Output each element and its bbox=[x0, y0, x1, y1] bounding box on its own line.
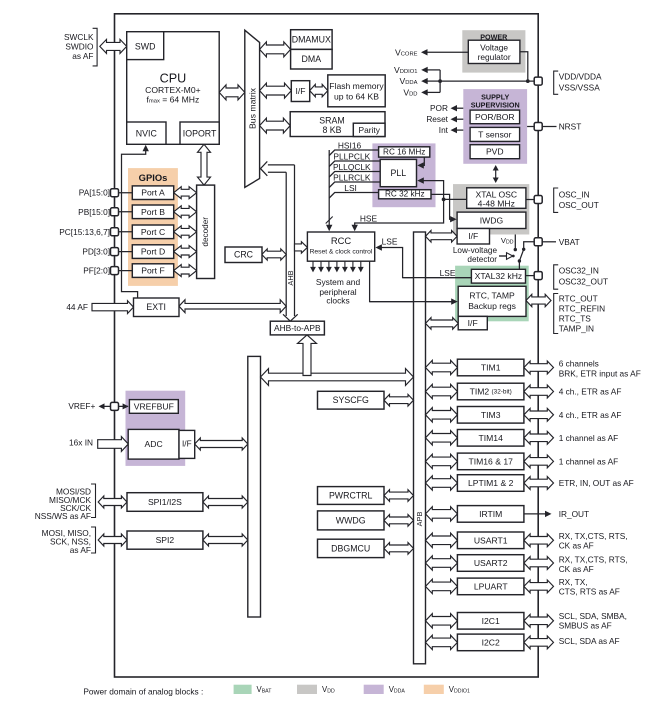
block PLL bbox=[380, 159, 416, 186]
block DMA bbox=[291, 49, 333, 69]
block Port D bbox=[132, 245, 173, 259]
block flash memory bbox=[328, 75, 385, 107]
pin square PD bbox=[111, 248, 119, 256]
arrow TIM16_17 AF pins bbox=[524, 455, 554, 468]
svg-text:6 channels: 6 channels bbox=[559, 359, 599, 369]
arrow 16x IN to ADC bbox=[98, 437, 129, 452]
svg-text:I2C2: I2C2 bbox=[482, 637, 500, 647]
svg-text:VREF+: VREF+ bbox=[68, 401, 95, 411]
svg-text:DMAMUX: DMAMUX bbox=[292, 35, 331, 45]
arrow APB to I2C1 bbox=[426, 614, 458, 628]
svg-text:PLLRCLK: PLLRCLK bbox=[333, 172, 371, 182]
power block fill (VDD gray) bbox=[462, 30, 525, 72]
wire XTAL OSC output HSE bbox=[444, 198, 467, 200]
svg-text:VREFBUF: VREFBUF bbox=[134, 401, 174, 411]
arrow TIM1 AF pins bbox=[524, 361, 554, 374]
arrow SPI1 to bus bbox=[203, 496, 248, 508]
wire VDD VDDA supply rail bbox=[440, 80, 534, 82]
arrow port B to decoder bbox=[174, 206, 197, 218]
block Port B bbox=[132, 205, 173, 219]
arrow AHB-to-APB to APB arrow bbox=[298, 335, 317, 376]
svg-text:Reset & clock control: Reset & clock control bbox=[310, 249, 373, 256]
block RC 32 kHz bbox=[379, 190, 431, 199]
wire PLLQCLK bbox=[329, 172, 380, 178]
block SYSCFG bbox=[318, 391, 385, 409]
arrow port A to decoder bbox=[174, 187, 197, 199]
arrow RTC IF to APB bbox=[426, 318, 459, 330]
svg-text:SCL, SDA, SMBA,: SCL, SDA, SMBA, bbox=[559, 611, 627, 621]
block Port C bbox=[132, 225, 173, 239]
arrow port C to decoder bbox=[174, 226, 197, 238]
svg-text:SWCLK: SWCLK bbox=[64, 32, 94, 42]
pin square VBAT bbox=[534, 238, 542, 246]
svg-text:RTC_REFIN: RTC_REFIN bbox=[559, 304, 605, 314]
svg-text:PA[15:0]: PA[15:0] bbox=[79, 188, 110, 198]
svg-text:PC[15:13,6,7]: PC[15:13,6,7] bbox=[59, 227, 110, 237]
svg-text:SWDIO: SWDIO bbox=[65, 42, 94, 52]
slash multi-signal mark bbox=[326, 217, 333, 224]
arrow bus matrix to SRAM bbox=[260, 118, 291, 133]
block RTC TAMP bbox=[458, 286, 526, 316]
wire port F pin bbox=[115, 270, 133, 272]
svg-text:PLL: PLL bbox=[390, 168, 406, 178]
wire VDD tap bbox=[425, 91, 441, 93]
arrow LPUART AF pins bbox=[524, 580, 554, 593]
svg-text:SMBUS as AF: SMBUS as AF bbox=[559, 620, 612, 630]
wire IRTIM IR_OUT bbox=[525, 513, 549, 515]
svg-text:SUPERVISION: SUPERVISION bbox=[471, 100, 520, 109]
svg-text:IWDG: IWDG bbox=[480, 215, 504, 225]
svg-text:RTC, TAMP: RTC, TAMP bbox=[469, 291, 515, 301]
AHB bus open arrow into bus matrix bbox=[268, 171, 286, 173]
arrow APB to TIM1 bbox=[426, 360, 458, 374]
svg-text:SYSCFG: SYSCFG bbox=[333, 395, 369, 405]
svg-text:4 ch., ETR as AF: 4 ch., ETR as AF bbox=[559, 410, 622, 420]
svg-text:up to 64 KB: up to 64 KB bbox=[334, 92, 379, 102]
svg-text:LPTIM1 & 2: LPTIM1 & 2 bbox=[468, 478, 514, 488]
wire port C pin bbox=[115, 231, 133, 233]
arrow SYSCFG to APB bbox=[384, 394, 414, 406]
wire HSI16 clock bbox=[329, 150, 378, 156]
svg-text:ETR, IN, OUT as AF: ETR, IN, OUT as AF bbox=[559, 478, 634, 488]
block LPTIM1 and 2 bbox=[457, 475, 524, 492]
svg-text:HSE: HSE bbox=[360, 214, 378, 224]
arrow flash IF to flash memory bbox=[310, 84, 328, 96]
block TIM3 bbox=[457, 407, 524, 424]
svg-text:Bus matrix: Bus matrix bbox=[248, 87, 258, 129]
svg-text:Backup regs: Backup regs bbox=[468, 301, 516, 311]
wire VDDIO1 tap bbox=[425, 69, 441, 71]
svg-text:VBAT: VBAT bbox=[257, 685, 273, 695]
block IWDG IF bbox=[457, 229, 489, 245]
arrow port D to decoder bbox=[174, 246, 197, 258]
wire Int output bbox=[454, 129, 464, 131]
arrow PVD to VDD monitor bbox=[495, 167, 497, 181]
svg-text:PB[15:0]: PB[15:0] bbox=[78, 207, 110, 217]
svg-text:as AF: as AF bbox=[70, 545, 91, 555]
svg-text:NRST: NRST bbox=[559, 122, 582, 132]
svg-text:16x IN: 16x IN bbox=[69, 438, 93, 448]
legend VDD swatch bbox=[297, 685, 317, 694]
block I2C2 bbox=[457, 634, 524, 651]
svg-text:NSS/WS as AF: NSS/WS as AF bbox=[35, 511, 91, 521]
arrow LPTIM1_2 AF pins bbox=[524, 477, 554, 490]
svg-text:TIM1: TIM1 bbox=[481, 363, 501, 373]
arrow EXTI to AHB bbox=[179, 300, 286, 313]
svg-text:RCC: RCC bbox=[331, 235, 352, 246]
block IWDG bbox=[457, 212, 526, 228]
arrow WWDG to APB bbox=[384, 515, 414, 527]
wire LSI to IWDG bbox=[431, 194, 454, 219]
legend VDDIO1 swatch bbox=[424, 685, 444, 694]
bus matrix bbox=[245, 30, 260, 187]
block EXTI bbox=[134, 298, 180, 317]
svg-text:System and: System and bbox=[316, 277, 361, 287]
clock block fill (VDDA purple) bbox=[372, 143, 435, 207]
svg-text:VDDA: VDDA bbox=[400, 76, 418, 86]
svg-text:decoder: decoder bbox=[201, 217, 210, 247]
svg-text:XTAL32 kHz: XTAL32 kHz bbox=[475, 271, 523, 281]
block parity bbox=[353, 123, 385, 136]
svg-text:LSE: LSE bbox=[382, 237, 398, 247]
svg-text:SPI2: SPI2 bbox=[156, 535, 175, 545]
arrow AHB to RCC bbox=[295, 242, 308, 253]
svg-text:RC 32 kHz: RC 32 kHz bbox=[385, 190, 425, 199]
svg-text:USART1: USART1 bbox=[474, 535, 508, 545]
wire port B pin bbox=[115, 211, 133, 213]
label OSC pins bbox=[554, 188, 559, 212]
block ADC IF bbox=[179, 430, 195, 458]
svg-text:CRC: CRC bbox=[234, 250, 254, 260]
xtal-iwdg block fill (VDD gray) bbox=[453, 184, 529, 234]
arrow AHB APB main horizontal bbox=[261, 369, 414, 386]
svg-text:Port C: Port C bbox=[141, 227, 165, 237]
pin square NRST bbox=[534, 123, 542, 131]
GPIOs power-domain fill (VDDIO1 orange) bbox=[128, 168, 178, 286]
block WWDG bbox=[318, 511, 385, 530]
block NVIC bbox=[127, 122, 166, 144]
arrow I2C2 AF pins bbox=[524, 636, 554, 649]
svg-text:1 channel as AF: 1 channel as AF bbox=[559, 456, 619, 466]
block VREFBUF bbox=[129, 400, 178, 414]
svg-text:44 AF: 44 AF bbox=[66, 302, 88, 312]
svg-text:ADC: ADC bbox=[145, 439, 163, 449]
wire LSE to RCC bbox=[378, 248, 471, 278]
wire Reset output bbox=[454, 118, 464, 120]
arrow RTC to pins bbox=[526, 294, 551, 306]
arrow APB to TIM16_17 bbox=[426, 454, 458, 468]
wire RTC clock across APB bar bbox=[370, 301, 455, 303]
block POR BOR bbox=[470, 110, 519, 124]
svg-text:CPU: CPU bbox=[160, 72, 187, 86]
svg-text:VDDIO1: VDDIO1 bbox=[449, 685, 470, 695]
svg-text:4-48 MHz: 4-48 MHz bbox=[478, 198, 515, 208]
arrow APB to LPTIM1_2 bbox=[426, 476, 458, 490]
svg-text:EXTI: EXTI bbox=[146, 302, 166, 312]
pin square PA bbox=[111, 189, 119, 197]
pin square PB bbox=[111, 208, 119, 216]
arrow USART1 AF pins bbox=[524, 534, 554, 547]
svg-text:RX, TX,: RX, TX, bbox=[559, 577, 588, 587]
svg-text:Port F: Port F bbox=[141, 266, 164, 276]
wire XTAL OSC to OSC pins bbox=[526, 199, 535, 201]
block RTC IF bbox=[458, 316, 487, 329]
block PVD bbox=[470, 145, 519, 159]
arrow APB to I2C2 bbox=[426, 635, 458, 649]
arrow DBGMCU to APB bbox=[384, 543, 414, 555]
arrow bus matrix to flash IF bbox=[260, 83, 292, 98]
svg-text:VDDIO1: VDDIO1 bbox=[394, 65, 417, 75]
arrow VREF+ in bbox=[101, 405, 128, 407]
arrow USART2 AF pins bbox=[524, 557, 554, 570]
block XTAL32 kHz bbox=[471, 269, 525, 283]
svg-text:VDDA: VDDA bbox=[389, 685, 406, 695]
svg-text:RTC_OUT: RTC_OUT bbox=[559, 294, 598, 304]
wire LSE across APB bar bbox=[403, 277, 472, 279]
svg-text:IOPORT: IOPORT bbox=[183, 128, 217, 138]
svg-text:RX, TX,CTS, RTS,: RX, TX,CTS, RTS, bbox=[559, 531, 628, 541]
block Port A bbox=[132, 186, 173, 200]
pin square OSC bbox=[534, 196, 542, 204]
wire XTAL32 to OSC32 pins bbox=[526, 275, 535, 277]
wire EXTI to NVIC interrupt bbox=[122, 148, 146, 299]
wire port A pin bbox=[115, 192, 133, 194]
svg-text:WWDG: WWDG bbox=[336, 515, 366, 525]
wire VDD to backup switch bbox=[514, 235, 516, 250]
svg-text:TIM14: TIM14 bbox=[479, 433, 504, 443]
arrow SWCLK SWDIO to SWD bbox=[100, 39, 127, 53]
svg-text:VSS/VSSA: VSS/VSSA bbox=[559, 83, 601, 93]
svg-text:SCL, SDA as AF: SCL, SDA as AF bbox=[559, 636, 620, 646]
block SPI2 bbox=[127, 531, 203, 549]
svg-text:IRTIM: IRTIM bbox=[479, 509, 502, 519]
arrow IWDG IF to APB bbox=[426, 231, 458, 243]
wire VDDA tap bbox=[425, 80, 441, 82]
wire PLLPCLK bbox=[329, 161, 380, 167]
svg-text:Int: Int bbox=[439, 125, 449, 135]
svg-text:OSC32_IN: OSC32_IN bbox=[559, 266, 599, 276]
svg-text:1 channel as AF: 1 channel as AF bbox=[559, 433, 619, 443]
svg-text:RTC_TS: RTC_TS bbox=[559, 313, 592, 323]
wire RCC clock to RTC bbox=[370, 261, 455, 301]
wire VBAT to backup switch bbox=[524, 242, 535, 250]
svg-text:I/F: I/F bbox=[468, 318, 478, 328]
arrow APB to LPUART bbox=[426, 579, 458, 593]
svg-text:I/F: I/F bbox=[182, 440, 192, 449]
arrow SPI2 to bus bbox=[203, 534, 248, 546]
arrow SPI1 pins bbox=[98, 496, 127, 508]
APB bus bar bbox=[414, 232, 426, 664]
block PWRCTRL bbox=[318, 487, 385, 505]
svg-text:PWRCTRL: PWRCTRL bbox=[329, 491, 373, 501]
svg-text:SPI1/I2S: SPI1/I2S bbox=[148, 497, 182, 507]
junction VDDA rail bbox=[438, 79, 442, 83]
block decoder bbox=[197, 185, 215, 278]
block TIM14 bbox=[457, 430, 524, 447]
outer device border bbox=[115, 14, 539, 677]
block Port F bbox=[132, 264, 173, 278]
block SPI1 I2S bbox=[127, 493, 203, 512]
block voltage regulator bbox=[468, 40, 520, 63]
svg-text:PD[3:0]: PD[3:0] bbox=[82, 247, 110, 257]
svg-text:Reset: Reset bbox=[426, 114, 448, 124]
svg-text:DBGMCU: DBGMCU bbox=[331, 543, 370, 553]
label OSC32 pins bbox=[554, 265, 559, 289]
svg-text:IR_OUT: IR_OUT bbox=[559, 509, 589, 519]
svg-text:GPIOs: GPIOs bbox=[139, 172, 168, 183]
svg-text:AHB-to-APB: AHB-to-APB bbox=[274, 323, 321, 333]
svg-text:SRAM: SRAM bbox=[319, 116, 344, 126]
svg-text:POR/BOR: POR/BOR bbox=[475, 112, 515, 122]
arrow APB to TIM3 bbox=[426, 408, 458, 422]
block IRTIM bbox=[457, 506, 524, 523]
svg-text:CK as AF: CK as AF bbox=[559, 541, 594, 551]
svg-text:TIM3: TIM3 bbox=[481, 410, 501, 420]
wire PLLRCLK bbox=[329, 182, 380, 188]
left peripheral bus bar bbox=[248, 356, 261, 617]
svg-text:Parity: Parity bbox=[358, 125, 380, 135]
svg-text:Voltage: Voltage bbox=[480, 42, 508, 52]
arrow APB to TIM14 bbox=[426, 431, 458, 445]
legend VBAT swatch bbox=[234, 685, 252, 694]
block TIM1 bbox=[457, 359, 524, 376]
arrow PWRCTRL to APB bbox=[384, 490, 414, 502]
svg-text:LSI: LSI bbox=[344, 183, 357, 193]
arrow IOPORT to decoder bbox=[198, 144, 211, 185]
arrow SPI2 pins bbox=[98, 534, 127, 546]
svg-text:LSE: LSE bbox=[440, 268, 456, 278]
svg-text:APB: APB bbox=[415, 512, 424, 527]
svg-text:LPUART: LPUART bbox=[474, 581, 509, 591]
svg-text:TIM16 & 17: TIM16 & 17 bbox=[468, 456, 513, 466]
svg-text:as AF: as AF bbox=[72, 51, 93, 61]
svg-text:VDD: VDD bbox=[322, 685, 335, 695]
label VDD VDDA pins bbox=[554, 71, 559, 94]
block DMAMUX bbox=[291, 30, 333, 50]
svg-text:HSI16: HSI16 bbox=[338, 140, 362, 150]
wire LSI clock bbox=[329, 193, 378, 199]
wire HSE to PLL bbox=[420, 181, 444, 200]
arrow CPU to bus matrix bbox=[219, 85, 245, 100]
pin square PF bbox=[111, 267, 119, 275]
svg-text:Port A: Port A bbox=[141, 188, 165, 198]
arrow CRC to AHB bbox=[262, 249, 286, 260]
block IOPORT bbox=[180, 122, 219, 144]
block USART1 bbox=[457, 532, 524, 549]
pin square VREF+ bbox=[111, 402, 119, 410]
vrefbuf-adc block fill (VDDA purple) bbox=[126, 391, 186, 466]
backup power switch blade bbox=[519, 249, 523, 269]
wire voltage regulator input bbox=[520, 52, 528, 81]
block RCC bbox=[307, 232, 374, 261]
arrow port F to decoder bbox=[174, 265, 197, 277]
svg-text:CTS, RTS as AF: CTS, RTS as AF bbox=[559, 587, 620, 597]
arrow bus matrix to DMAMUX DMA bbox=[260, 42, 291, 57]
svg-text:I/F: I/F bbox=[295, 86, 305, 96]
wire clock bundle down to RCC bbox=[328, 150, 330, 229]
label RTC pins bbox=[554, 294, 559, 334]
arrow TIM14 AF pins bbox=[524, 431, 554, 444]
low-voltage detector arrow bbox=[499, 255, 507, 257]
block CPU bbox=[127, 32, 220, 145]
block SRAM bbox=[290, 112, 385, 137]
svg-text:DMA: DMA bbox=[302, 54, 322, 64]
pin square PC bbox=[111, 228, 119, 236]
svg-text:PVD: PVD bbox=[486, 147, 504, 157]
svg-text:4 ch., ETR as AF: 4 ch., ETR as AF bbox=[559, 387, 622, 397]
svg-text:Port B: Port B bbox=[141, 207, 165, 217]
arrow 44 AF into EXTI bbox=[92, 301, 134, 314]
arrow ADC IF to bus bbox=[195, 438, 248, 450]
svg-text:OSC_IN: OSC_IN bbox=[559, 190, 590, 200]
block USART2 bbox=[457, 555, 524, 572]
svg-text:CORTEX-M0+: CORTEX-M0+ bbox=[145, 85, 200, 95]
svg-text:POR: POR bbox=[430, 103, 448, 113]
svg-text:NVIC: NVIC bbox=[136, 128, 158, 138]
arrow I2C1 AF pins bbox=[524, 614, 554, 627]
svg-text:OSC_OUT: OSC_OUT bbox=[559, 200, 599, 210]
block SWD bbox=[127, 32, 164, 60]
svg-text:USART2: USART2 bbox=[474, 558, 508, 568]
svg-text:T sensor: T sensor bbox=[478, 129, 511, 139]
svg-text:PLLQCLK: PLLQCLK bbox=[333, 162, 371, 172]
svg-text:CK as AF: CK as AF bbox=[559, 564, 594, 574]
svg-text:I/F: I/F bbox=[468, 231, 478, 241]
svg-text:Port D: Port D bbox=[141, 247, 165, 257]
wire HSE down to RCC bbox=[355, 199, 444, 228]
svg-text:I2C1: I2C1 bbox=[482, 616, 500, 626]
AHB bus open arrow into AHB-to-APB bbox=[283, 314, 298, 321]
arrow APB to USART2 bbox=[426, 556, 458, 570]
block ADC bbox=[128, 429, 179, 459]
backup domain fill (VBAT green) bbox=[455, 266, 529, 322]
block DBGMCU bbox=[318, 539, 385, 557]
wire NRST bbox=[527, 126, 556, 128]
RCC clock output arrows bbox=[312, 261, 314, 268]
wire port D pin bbox=[115, 251, 133, 253]
arrow TIM3 AF pins bbox=[524, 408, 554, 421]
block T sensor bbox=[470, 127, 519, 141]
block flash IF bbox=[291, 81, 309, 102]
wire RC16MHz to PLL bbox=[420, 157, 424, 165]
svg-text:regulator: regulator bbox=[478, 52, 511, 62]
arrow APB to USART1 bbox=[426, 533, 458, 547]
block AHB-to-APB bbox=[270, 321, 324, 335]
block I2C1 bbox=[457, 613, 524, 630]
wire VBAT pin to label bbox=[542, 241, 556, 243]
wire POR output bbox=[454, 107, 464, 109]
block TIM2 bbox=[457, 383, 524, 400]
svg-text:clocks: clocks bbox=[326, 296, 349, 306]
svg-text:VBAT: VBAT bbox=[559, 237, 580, 247]
block XTAL OSC bbox=[467, 188, 526, 209]
svg-text:Low-voltage: Low-voltage bbox=[453, 246, 498, 255]
svg-text:VDD/VDDA: VDD/VDDA bbox=[559, 72, 602, 82]
svg-text:8 KB: 8 KB bbox=[322, 125, 341, 135]
svg-text:VDD: VDD bbox=[501, 236, 514, 246]
block LPUART bbox=[457, 578, 524, 595]
svg-text:Power domain of analog blocks: Power domain of analog blocks : bbox=[83, 687, 203, 697]
supply supervision fill (VDDA purple) bbox=[463, 89, 527, 164]
svg-text:Flash memory: Flash memory bbox=[329, 81, 384, 91]
AHB bus lines bbox=[285, 172, 287, 316]
svg-text:RC 16 MHz: RC 16 MHz bbox=[383, 148, 425, 157]
svg-text:VDD: VDD bbox=[403, 87, 417, 97]
svg-text:BRK, ETR input as AF: BRK, ETR input as AF bbox=[559, 368, 641, 378]
arrow APB to TIM2 bbox=[426, 384, 458, 398]
svg-text:TAMP_IN: TAMP_IN bbox=[559, 323, 594, 333]
block TIM16 and 17 bbox=[457, 453, 524, 470]
